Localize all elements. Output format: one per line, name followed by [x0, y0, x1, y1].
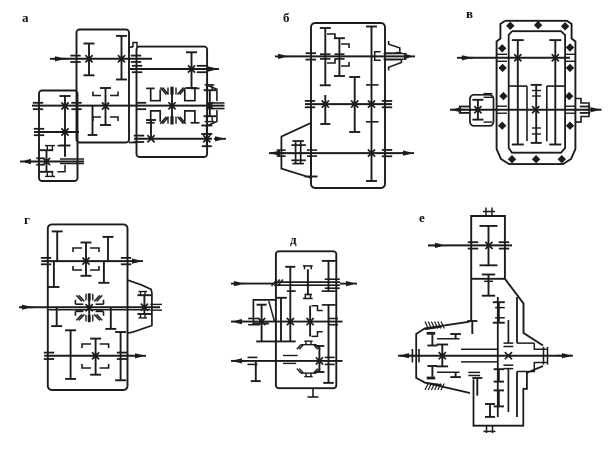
panel b gear b4: [354, 77, 356, 132]
panel e input shaft: [428, 244, 446, 246]
panel a clutch right U lower: [185, 111, 195, 123]
panel d third shaft right bearing dashes: [325, 356, 335, 358]
panel e planet gear upper: [498, 302, 500, 323]
panel a clutch teeth bars: [170, 87, 173, 95]
panel a clutch slashes lower: [160, 117, 166, 124]
panel v input x-marks: [514, 54, 521, 61]
panel b x-marks intermediate: [322, 101, 329, 108]
panel g gear g2: [107, 237, 109, 261]
panel b gear b2: [338, 38, 340, 76]
panel d input shaft arrows: [231, 283, 245, 285]
panel a input shaft: [50, 58, 66, 60]
panel e inner wall right upper: [516, 297, 518, 343]
panel b left housing bulge: [281, 123, 311, 178]
panel v left shaft bearing: [459, 106, 469, 108]
panel e main shaft: [398, 355, 414, 357]
panel a gear z6 hub marks: [206, 85, 208, 90]
panel e right step arms: [517, 342, 534, 344]
panel e right outline lower: [523, 366, 543, 389]
panel g gear g4: [103, 261, 105, 283]
panel e top casing box: [471, 216, 543, 346]
panel a gear z4b twin: [92, 106, 94, 135]
panel a gear z6 right: [209, 90, 211, 116]
panel d central column: [318, 346, 320, 372]
panel b gear b2 shaft dashes: [335, 53, 345, 55]
panel v input shaft: [457, 57, 473, 59]
panel a gear z4: [105, 88, 107, 125]
panel b gear b1 shaft dashes: [320, 53, 331, 55]
panel a gear z9 upper: [206, 126, 208, 135]
panel d gear d2 central: [307, 269, 309, 294]
panel b coupling bracket on input shaft: [375, 52, 381, 60]
panel g upper bearings: [41, 257, 51, 259]
panel g hooks lower: [82, 344, 91, 348]
panel d gear d1: [289, 267, 291, 342]
svg-text:в: в: [466, 6, 473, 21]
panel e inner wall left: [497, 297, 499, 417]
panel v output shaft: [450, 109, 466, 111]
panel d input right bearing dashes: [325, 278, 340, 280]
panel d gear d7: [255, 361, 257, 381]
panel d right lay gear lower: [328, 305, 330, 383]
panel e central axis lower: [507, 369, 509, 412]
panel a right notch outline: [207, 85, 217, 101]
panel b output shaft sleeve lines: [384, 53, 407, 55]
panel e gear e2: [488, 275, 490, 296]
panel a gear z2: [121, 36, 123, 80]
panel v output wall bearing dashes: [498, 105, 508, 107]
panel g input shaft second line: [48, 309, 150, 311]
panel a upper output left bearing: [132, 65, 142, 67]
panel a clutch left U lower: [146, 122, 154, 124]
panel e x input: [485, 242, 492, 249]
panel e right bearing: [543, 347, 545, 365]
panel v bolts diamonds: [506, 22, 514, 30]
panel v central column wall left: [526, 86, 528, 141]
panel b input shaft: [275, 55, 289, 57]
panel e top box bottom edge: [471, 278, 505, 280]
panel v right bearing: [580, 106, 590, 108]
panel e central axis upper: [507, 320, 509, 343]
panel a gear z3: [191, 52, 193, 88]
panel e breather bottom: [484, 430, 496, 432]
panel a bottom-left output shaft: [20, 161, 36, 163]
panel g side shaft sleeve: [150, 303, 162, 305]
panel e lower-left gear: [476, 378, 478, 396]
panel b gear b1 lower stub: [324, 95, 326, 124]
panel e bottom-left bearing dashes: [468, 371, 480, 373]
panel e breather top: [483, 211, 495, 213]
panel v left gear: [477, 100, 479, 120]
panel v outer housing contour: [497, 21, 576, 164]
panel b gear at box edge: [310, 153, 312, 176]
panel g gear g6: [110, 307, 112, 329]
panel d gear d3 right lay: [328, 261, 330, 291]
panel v gear v1: [517, 40, 519, 144]
panel g upper output shaft: [41, 260, 131, 262]
panel g input shaft: [19, 306, 33, 308]
panel b output mid bearing dashes: [307, 149, 317, 151]
panel a clutch hooks bottom-left: [57, 146, 65, 157]
panel a gear z1: [88, 44, 90, 76]
panel b gear b1: [324, 28, 326, 85]
panel v left hub marks: [484, 93, 493, 95]
panel a upper output bearing: [197, 65, 207, 67]
panel d claw clutch third: [301, 344, 316, 346]
panel v gear v2: [554, 40, 556, 144]
panel e central hub caps: [504, 342, 514, 344]
panel e x-marks main shaft: [439, 352, 446, 359]
panel b hooks below input: [327, 59, 335, 63]
panel g side gear: [143, 295, 145, 314]
panel e gear e1: [488, 226, 490, 265]
panel a casing top-center box: [77, 30, 130, 143]
svg-text:е: е: [419, 210, 425, 225]
svg-text:д: д: [290, 232, 297, 247]
panel b gear b3 crossbars: [366, 84, 379, 86]
panel e planet gear lower: [498, 369, 500, 381]
panel d third shaft left bearing dashes: [248, 356, 258, 358]
panel e input bearings: [468, 241, 478, 243]
panel v left auxiliary housing: [470, 95, 494, 126]
panel a middle shaft: [32, 105, 225, 107]
panel d third shaft: [231, 360, 245, 362]
svg-text:г: г: [24, 212, 30, 227]
panel d x-marks second shaft: [258, 318, 265, 325]
panel a upper output shaft: [130, 68, 207, 70]
panel a casing left box: [39, 91, 78, 182]
panel b output right bearing: [382, 149, 392, 151]
panel d left bulge: [253, 300, 276, 324]
panel d clutch gear v310: [309, 306, 311, 337]
panel b x-mark output: [368, 150, 375, 157]
panel b hook b1: [327, 34, 335, 38]
panel a intermediate shaft left box: [34, 131, 79, 133]
panel e left T-gear lower: [455, 372, 457, 377]
panel g central lower gear: [95, 339, 97, 375]
panel g gear g5: [56, 307, 58, 326]
panel a bottom-left shaft bearing: [36, 157, 44, 159]
panel v central column wall right: [546, 86, 548, 141]
panel e gear e2 middle dash: [484, 280, 493, 282]
panel e upper-left small gear: [471, 321, 473, 334]
panel v inner housing contour: [509, 31, 565, 153]
panel v right attachment step: [575, 99, 589, 123]
panel a clutch slashes upper: [160, 88, 166, 95]
panel e bottom casing box: [474, 379, 524, 425]
panel a bottom-right output shaft: [134, 138, 212, 140]
panel g gear g3: [53, 261, 55, 287]
panel d twin gear line: [280, 298, 282, 342]
panel e inner wall right lower: [516, 372, 518, 418]
panel a casing ledge line: [129, 142, 137, 144]
panel g input clutch slashes: [76, 295, 82, 301]
panel g casing: [48, 224, 128, 390]
panel a input shaft right bearing: [131, 55, 141, 57]
panel v input wall bearing dashes: [498, 53, 508, 55]
panel e main shaft left bearing: [411, 349, 413, 362]
panel g gear g7: [70, 330, 72, 379]
panel d input shaft double line: [276, 281, 340, 283]
panel a gear z7 hub marks: [46, 146, 48, 151]
panel e left main gear: [441, 345, 443, 367]
panel d clutch meander lower: [312, 332, 323, 337]
panel e carrier arms: [461, 348, 498, 350]
svg-text:а: а: [22, 10, 29, 25]
panel v central gear column: [535, 85, 537, 143]
panel d shaft3 sleeve lines: [283, 355, 298, 357]
panel b hook b2: [341, 44, 349, 48]
panel g side gear hub marks: [140, 292, 142, 296]
panel e left hub bars: [427, 332, 436, 335]
panel a gear z8: [150, 120, 152, 139]
panel a middle shaft bearings: [33, 102, 43, 104]
panel v output x-marks: [532, 106, 539, 113]
panel g input clutch bars: [75, 303, 83, 305]
panel g lower output shaft: [44, 355, 134, 357]
panel a gear z5 left box: [64, 96, 66, 146]
panel e hatch support bottom: [425, 383, 442, 385]
panel a hooks near z4: [93, 92, 101, 96]
panel b output shaft: [269, 152, 285, 154]
panel e left small gear upper: [431, 335, 433, 346]
panel a box connector line: [129, 46, 133, 48]
panel v inner shelf left: [509, 85, 527, 87]
panel d x-mark third shaft: [316, 357, 323, 364]
panel b intermediate bearings: [305, 100, 315, 102]
panel b casing: [311, 23, 385, 188]
panel d left gear: [261, 305, 263, 342]
panel b output left bearing dashes: [277, 149, 286, 151]
panel b gear b3 long: [371, 27, 373, 182]
panel d second shaft left bearing dashes: [248, 318, 260, 320]
panel g right side housing: [128, 280, 152, 333]
panel g input gear line: [88, 300, 90, 315]
panel a casing right box: [137, 47, 208, 157]
panel g input clutch teeth: [88, 293, 91, 300]
panel b input bearings: [306, 52, 316, 54]
panel b right bearing housing step: [389, 41, 400, 52]
panel e left small gear lower: [431, 366, 433, 377]
panel d input left clutch hatch: [272, 280, 278, 287]
panel a gear middle right: [171, 95, 173, 117]
panel a gear z9: [206, 134, 208, 146]
panel b clutch block on output: [295, 141, 297, 164]
panel a clutch right U upper: [185, 88, 195, 100]
panel a bottom-left shaft lines: [60, 158, 84, 160]
panel d second shaft: [231, 321, 245, 323]
panel v inner shelf right: [547, 85, 565, 87]
panel e hatch support top: [425, 327, 442, 330]
panel a bottom-right bearing: [134, 135, 144, 137]
panel d diag line: [269, 301, 275, 322]
panel v central hub marks: [532, 90, 541, 92]
panel g hooks upper: [73, 248, 82, 252]
panel a middle shaft sleeve lines: [207, 102, 225, 104]
panel e outline mid-left diagonals: [416, 322, 470, 393]
panel a clutch left U upper: [146, 87, 154, 89]
panel d bottom stand mark: [312, 388, 314, 397]
panel d casing: [276, 251, 336, 388]
svg-text:б: б: [283, 10, 290, 25]
panel g gear g1: [56, 231, 58, 261]
panel g central upper gear: [85, 243, 87, 276]
panel d clutch meander upper: [312, 306, 323, 311]
panel d twin gear bottom bar: [256, 340, 296, 342]
panel a gear z7: [46, 150, 48, 172]
panel e left T-gear upper: [455, 334, 457, 339]
panel a input shaft bearing: [70, 55, 80, 57]
panel d second shaft right bearing dashes: [328, 318, 338, 320]
panel e bottom gear: [489, 404, 491, 417]
panel g gear g8: [120, 332, 122, 380]
panel g lower bearings: [44, 352, 54, 354]
panel b intermediate shaft: [305, 103, 392, 105]
